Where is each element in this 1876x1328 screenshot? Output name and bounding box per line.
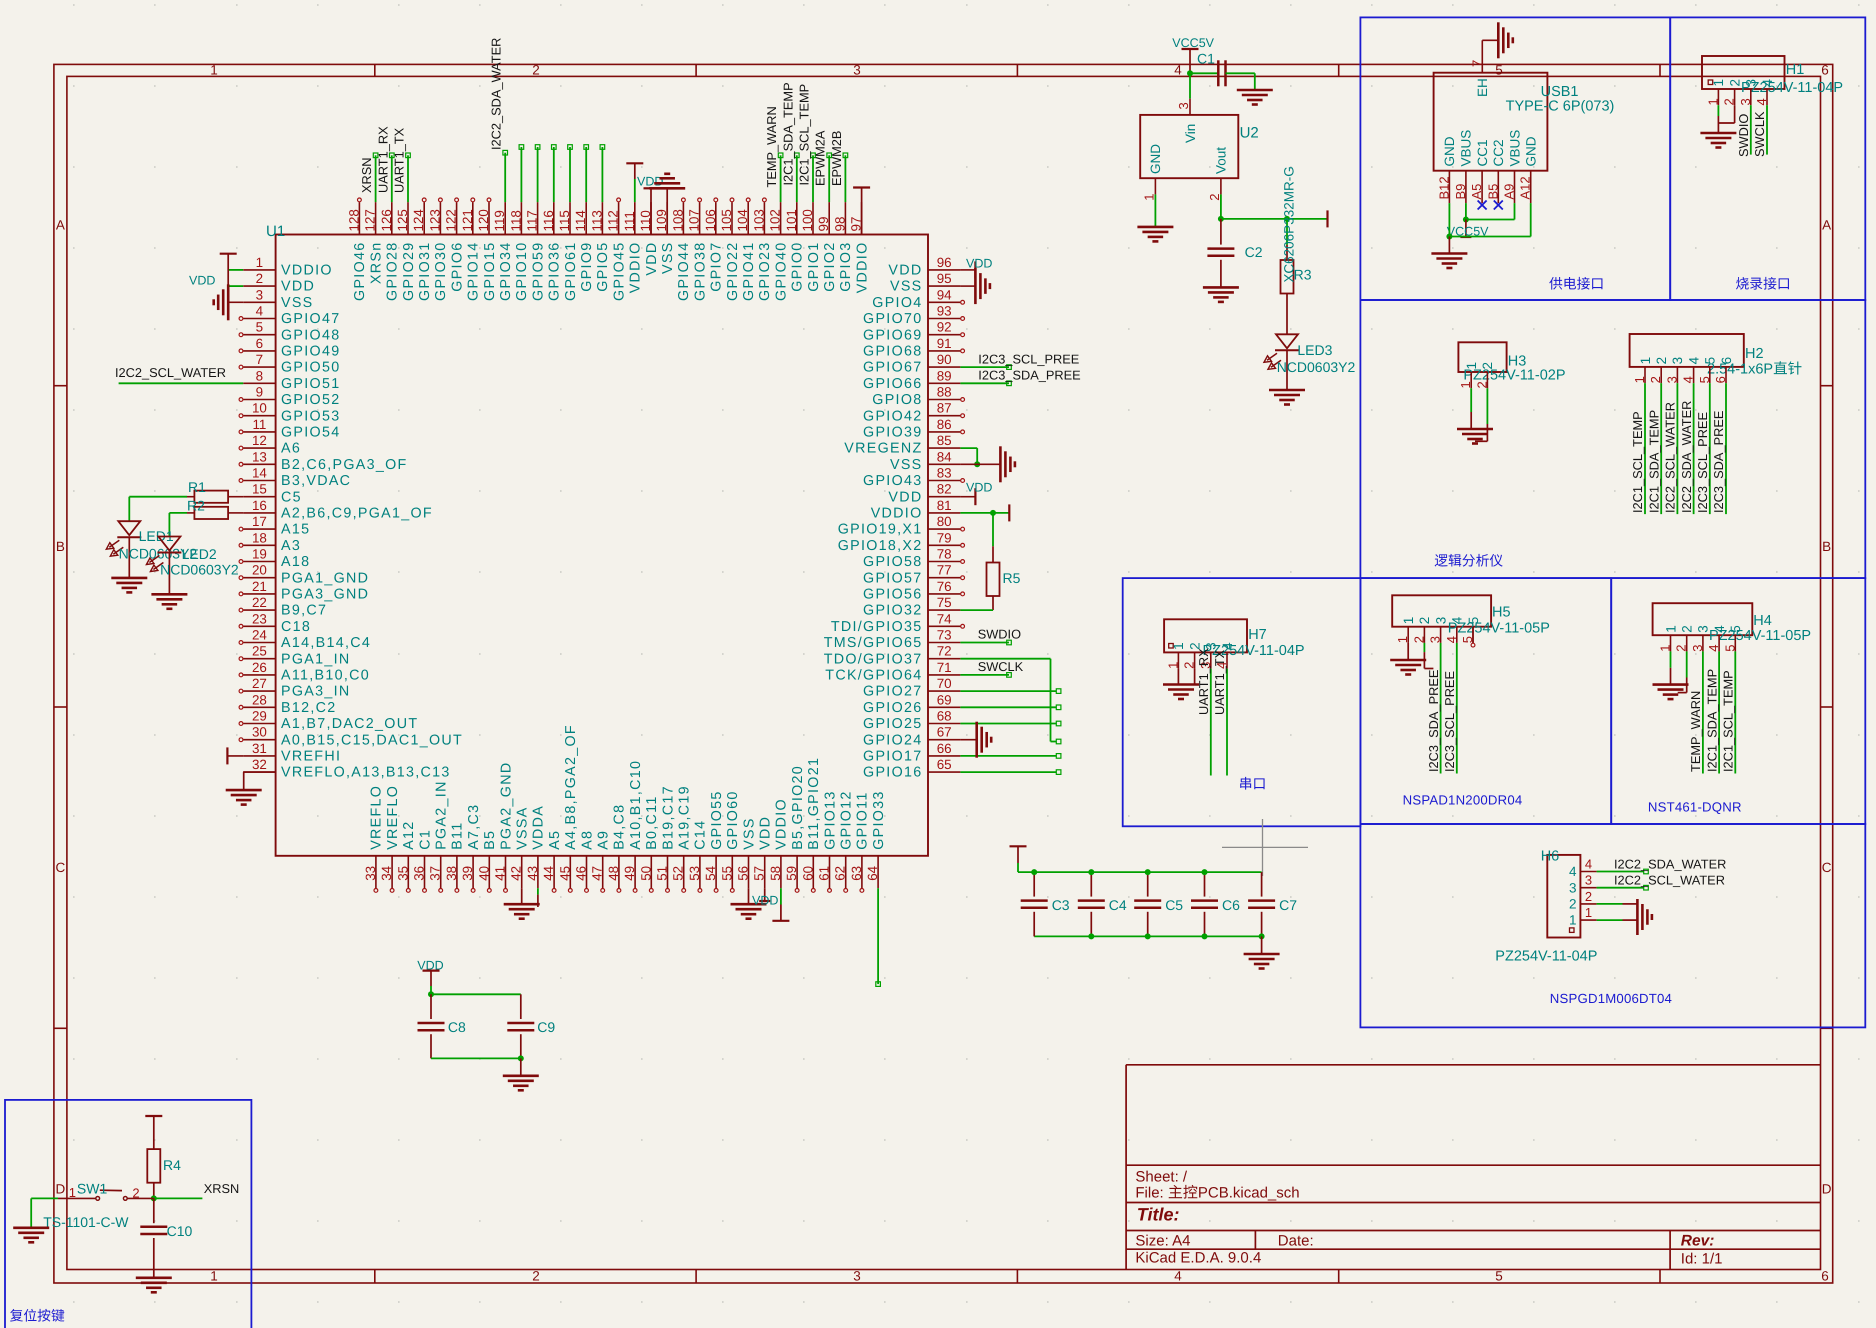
svg-text:I2C3_SDA_PREE: I2C3_SDA_PREE	[1711, 411, 1726, 513]
svg-text:85: 85	[937, 433, 952, 448]
svg-text:VDD: VDD	[189, 273, 215, 287]
svg-text:2: 2	[1480, 362, 1495, 370]
svg-text:46: 46	[574, 866, 589, 881]
svg-text:KiCad E.D.A. 9.0.4: KiCad E.D.A. 9.0.4	[1135, 1250, 1261, 1267]
svg-text:PGA2_IN: PGA2_IN	[434, 780, 450, 850]
svg-text:GPIO17: GPIO17	[863, 749, 922, 765]
svg-text:126: 126	[379, 209, 394, 231]
svg-text:Size: A4: Size: A4	[1135, 1233, 1190, 1250]
svg-text:SWDIO: SWDIO	[978, 627, 1021, 642]
svg-text:GPIO60: GPIO60	[725, 790, 741, 849]
svg-text:92: 92	[937, 320, 952, 335]
svg-text:3: 3	[1738, 98, 1753, 105]
svg-text:R1: R1	[188, 479, 206, 495]
svg-text:R4: R4	[163, 1157, 181, 1173]
svg-text:C10: C10	[167, 1223, 193, 1239]
svg-text:B5,GPIO20: B5,GPIO20	[790, 765, 806, 850]
svg-text:3: 3	[853, 62, 861, 77]
svg-text:A2,B6,C9,PGA1_OF: A2,B6,C9,PGA1_OF	[281, 506, 433, 522]
svg-text:2: 2	[1207, 194, 1222, 201]
svg-text:7: 7	[256, 352, 263, 367]
svg-text:XRSn: XRSn	[368, 242, 384, 285]
svg-text:114: 114	[573, 210, 588, 232]
svg-text:A9: A9	[596, 830, 612, 850]
svg-text:I2C2_SDA_WATER: I2C2_SDA_WATER	[1614, 856, 1726, 871]
svg-text:65: 65	[937, 757, 952, 772]
svg-text:TCK/GPIO64: TCK/GPIO64	[825, 668, 922, 684]
svg-text:VDD: VDD	[752, 894, 778, 908]
svg-text:GPIO43: GPIO43	[863, 473, 922, 489]
svg-text:TDO/GPIO37: TDO/GPIO37	[824, 651, 923, 667]
svg-text:A18: A18	[281, 554, 310, 570]
svg-text:38: 38	[444, 866, 459, 881]
svg-text:GPIO18,X2: GPIO18,X2	[838, 538, 923, 554]
svg-text:A7,C3: A7,C3	[466, 804, 482, 850]
svg-text:File: 主控PCB.kicad_sch: File: 主控PCB.kicad_sch	[1135, 1185, 1299, 1202]
svg-text:H2: H2	[1745, 346, 1764, 362]
svg-text:GPIO30: GPIO30	[433, 242, 449, 301]
svg-text:2: 2	[1411, 636, 1426, 643]
svg-text:PZ254V-11-04P: PZ254V-11-04P	[1495, 949, 1597, 965]
svg-text:5: 5	[1697, 376, 1712, 383]
svg-text:1: 1	[1632, 376, 1647, 383]
svg-text:PGA2_GND: PGA2_GND	[498, 762, 514, 850]
svg-text:NCD0603Y2: NCD0603Y2	[160, 562, 239, 578]
svg-text:VDDIO: VDDIO	[281, 263, 333, 279]
svg-text:23: 23	[252, 611, 267, 626]
svg-text:6: 6	[1821, 1268, 1829, 1283]
svg-text:21: 21	[252, 579, 267, 594]
svg-text:GPIO32: GPIO32	[863, 603, 922, 619]
svg-text:3: 3	[256, 287, 263, 302]
svg-text:GPIO25: GPIO25	[863, 716, 922, 732]
svg-text:3: 3	[1585, 873, 1592, 888]
svg-text:I2C1_SDA_TEMP: I2C1_SDA_TEMP	[1704, 669, 1719, 772]
svg-text:NST461-DQNR: NST461-DQNR	[1648, 800, 1742, 815]
svg-text:62: 62	[833, 866, 848, 881]
svg-text:90: 90	[937, 352, 952, 367]
svg-text:C5: C5	[1165, 897, 1183, 913]
svg-text:NSPAD1N200DR04: NSPAD1N200DR04	[1403, 793, 1523, 808]
svg-text:1: 1	[1464, 362, 1479, 370]
svg-text:48: 48	[606, 866, 621, 881]
svg-text:1: 1	[1663, 625, 1678, 633]
svg-text:100: 100	[800, 209, 815, 231]
svg-text:VREFLO: VREFLO	[369, 785, 385, 850]
svg-text:A5: A5	[547, 830, 563, 850]
svg-text:GPIO46: GPIO46	[352, 242, 368, 301]
svg-text:GPIO8: GPIO8	[872, 392, 922, 408]
svg-text:GPIO34: GPIO34	[498, 242, 514, 301]
svg-text:A14,B14,C4: A14,B14,C4	[281, 635, 371, 651]
svg-text:118: 118	[508, 210, 523, 231]
svg-text:Id: 1/1: Id: 1/1	[1681, 1251, 1723, 1268]
svg-text:59: 59	[784, 866, 799, 881]
svg-text:GPIO47: GPIO47	[281, 311, 340, 327]
svg-text:VSS: VSS	[890, 457, 923, 473]
svg-text:VDD: VDD	[281, 279, 315, 295]
svg-text:35: 35	[395, 866, 410, 881]
svg-text:GPIO45: GPIO45	[611, 242, 627, 301]
svg-text:TDI/GPIO35: TDI/GPIO35	[831, 619, 923, 635]
svg-text:GPIO54: GPIO54	[281, 425, 340, 441]
svg-text:52: 52	[671, 866, 686, 881]
svg-text:11: 11	[252, 417, 266, 432]
svg-text:57: 57	[752, 866, 767, 881]
svg-text:A15: A15	[281, 522, 310, 538]
svg-text:A: A	[56, 218, 65, 233]
svg-text:B11,GPIO21: B11,GPIO21	[806, 757, 822, 850]
svg-text:GPIO1: GPIO1	[806, 242, 822, 292]
svg-text:50: 50	[638, 866, 653, 881]
svg-text:1: 1	[1458, 381, 1473, 388]
svg-text:TMS/GPIO65: TMS/GPIO65	[824, 635, 923, 651]
svg-text:40: 40	[476, 866, 491, 881]
svg-text:PGA1_IN: PGA1_IN	[281, 651, 351, 667]
svg-text:39: 39	[460, 866, 475, 881]
svg-text:GPIO38: GPIO38	[692, 242, 708, 301]
svg-text:79: 79	[937, 530, 952, 545]
svg-text:121: 121	[460, 209, 475, 231]
svg-text:SWCLK: SWCLK	[978, 659, 1024, 674]
svg-text:7: 7	[1469, 60, 1484, 67]
svg-text:H6: H6	[1541, 849, 1560, 865]
svg-text:I2C1_SDA_TEMP: I2C1_SDA_TEMP	[1646, 410, 1661, 513]
svg-text:25: 25	[252, 644, 267, 659]
svg-text:GPIO56: GPIO56	[863, 587, 922, 603]
svg-text:14: 14	[252, 466, 267, 481]
svg-text:VREFLO: VREFLO	[385, 785, 401, 850]
svg-text:42: 42	[509, 866, 524, 881]
svg-text:C9: C9	[537, 1019, 555, 1035]
svg-text:104: 104	[735, 209, 750, 232]
svg-text:VREFLO,A13,B13,C13: VREFLO,A13,B13,C13	[281, 765, 451, 781]
svg-text:B11: B11	[450, 822, 466, 850]
svg-text:I2C3_SCL_PREE: I2C3_SCL_PREE	[1695, 412, 1710, 513]
svg-text:13: 13	[252, 449, 267, 464]
svg-text:9: 9	[256, 385, 263, 400]
svg-text:GPIO0: GPIO0	[790, 242, 806, 292]
svg-text:GPIO3: GPIO3	[838, 242, 854, 292]
svg-text:Title:: Title:	[1137, 1205, 1180, 1225]
svg-text:复位按键: 复位按键	[10, 1308, 65, 1323]
svg-text:VDD: VDD	[966, 256, 992, 270]
svg-text:15: 15	[252, 482, 267, 497]
svg-text:UART1_TX: UART1_TX	[1212, 649, 1227, 715]
svg-text:A11,B10,C0: A11,B10,C0	[281, 668, 370, 684]
svg-text:71: 71	[937, 660, 952, 675]
svg-text:R2: R2	[187, 498, 205, 514]
svg-text:95: 95	[937, 271, 952, 286]
svg-text:105: 105	[719, 209, 734, 231]
svg-text:EPWM2B: EPWM2B	[829, 131, 844, 186]
svg-text:93: 93	[937, 304, 952, 319]
svg-text:A: A	[1822, 218, 1831, 233]
svg-text:GPIO36: GPIO36	[547, 242, 563, 301]
svg-text:GPIO29: GPIO29	[401, 242, 417, 301]
svg-text:2: 2	[1648, 376, 1663, 383]
svg-text:31: 31	[252, 741, 267, 756]
svg-text:A12: A12	[401, 820, 417, 849]
svg-text:4: 4	[1569, 864, 1577, 879]
svg-text:49: 49	[622, 866, 637, 881]
svg-text:GPIO58: GPIO58	[863, 554, 922, 570]
svg-text:GPIO2: GPIO2	[822, 242, 838, 292]
svg-text:VSS: VSS	[741, 817, 757, 850]
svg-text:A12: A12	[1518, 176, 1533, 199]
svg-text:4: 4	[1220, 642, 1235, 650]
svg-text:3: 3	[1690, 644, 1705, 651]
svg-text:77: 77	[937, 563, 952, 578]
svg-text:GPIO6: GPIO6	[449, 242, 465, 292]
svg-text:4: 4	[1754, 98, 1769, 105]
svg-text:C14: C14	[693, 820, 709, 850]
svg-text:3: 3	[1696, 625, 1711, 633]
svg-text:VDD: VDD	[644, 242, 660, 276]
svg-text:A6: A6	[281, 441, 301, 457]
svg-text:GPIO40: GPIO40	[773, 242, 789, 301]
svg-text:GPIO68: GPIO68	[863, 344, 922, 360]
svg-text:GPIO70: GPIO70	[863, 311, 922, 327]
svg-text:A5: A5	[1469, 184, 1484, 200]
svg-text:34: 34	[379, 865, 394, 880]
svg-text:GPIO44: GPIO44	[676, 242, 692, 301]
svg-text:GPIO48: GPIO48	[281, 327, 340, 343]
svg-text:2: 2	[1722, 98, 1737, 105]
svg-text:119: 119	[492, 210, 507, 231]
svg-text:55: 55	[719, 866, 734, 881]
svg-text:GPIO26: GPIO26	[863, 700, 922, 716]
svg-text:32: 32	[252, 757, 267, 772]
svg-text:12: 12	[252, 433, 267, 448]
svg-text:R5: R5	[1003, 570, 1021, 586]
svg-text:B5: B5	[482, 830, 498, 850]
svg-text:70: 70	[937, 676, 952, 691]
svg-text:VDD: VDD	[966, 481, 992, 495]
svg-text:C7: C7	[1279, 897, 1297, 913]
svg-text:C1: C1	[417, 829, 433, 850]
svg-text:PGA3_IN: PGA3_IN	[281, 684, 351, 700]
svg-text:1: 1	[1569, 913, 1577, 928]
svg-text:27: 27	[252, 676, 267, 691]
svg-text:GPIO14: GPIO14	[466, 242, 482, 301]
svg-text:VREGENZ: VREGENZ	[844, 441, 922, 457]
svg-text:3: 3	[1670, 357, 1685, 365]
svg-text:GPIO28: GPIO28	[385, 242, 401, 301]
svg-text:73: 73	[937, 628, 952, 643]
svg-text:67: 67	[937, 725, 952, 740]
svg-text:56: 56	[736, 866, 751, 881]
svg-text:1: 1	[1165, 662, 1180, 669]
svg-text:5: 5	[1466, 617, 1481, 625]
svg-text:VDD: VDD	[888, 489, 922, 505]
svg-text:U1: U1	[266, 223, 285, 240]
svg-text:TS-1101-C-W: TS-1101-C-W	[43, 1214, 129, 1230]
svg-text:37: 37	[428, 866, 443, 881]
svg-text:94: 94	[937, 287, 952, 302]
svg-text:60: 60	[800, 866, 815, 881]
svg-text:C8: C8	[448, 1019, 466, 1035]
svg-text:H4: H4	[1753, 613, 1772, 629]
svg-text:VDDIO: VDDIO	[628, 242, 644, 294]
svg-text:2: 2	[132, 1186, 139, 1201]
svg-text:B3,VDAC: B3,VDAC	[281, 473, 351, 489]
svg-text:VCC5V: VCC5V	[1172, 36, 1214, 50]
svg-text:18: 18	[252, 530, 267, 545]
svg-text:GPIO41: GPIO41	[741, 242, 757, 301]
svg-text:串口: 串口	[1239, 777, 1267, 792]
svg-text:111: 111	[622, 211, 637, 231]
svg-text:I2C1_SCL_TEMP: I2C1_SCL_TEMP	[1721, 670, 1736, 772]
svg-text:GPIO27: GPIO27	[863, 684, 922, 700]
svg-text:5: 5	[1728, 625, 1743, 633]
svg-text:2: 2	[1727, 79, 1742, 87]
svg-text:Vin: Vin	[1183, 124, 1198, 143]
svg-text:GPIO50: GPIO50	[281, 360, 340, 376]
svg-text:33: 33	[363, 866, 378, 881]
svg-text:LED3: LED3	[1297, 342, 1332, 358]
svg-text:A10,B1,C10: A10,B1,C10	[628, 760, 644, 850]
svg-text:B: B	[56, 539, 65, 554]
svg-text:GPIO10: GPIO10	[514, 242, 530, 301]
svg-text:98: 98	[832, 217, 847, 232]
svg-text:B12: B12	[1436, 176, 1451, 199]
svg-text:I2C2_SDA_WATER: I2C2_SDA_WATER	[489, 38, 504, 150]
svg-text:C2: C2	[1245, 244, 1263, 260]
svg-text:102: 102	[768, 209, 783, 231]
svg-text:GPIO5: GPIO5	[595, 242, 611, 292]
svg-text:VDD: VDD	[888, 263, 922, 279]
svg-text:44: 44	[541, 865, 556, 880]
svg-text:GPIO42: GPIO42	[863, 408, 922, 424]
svg-text:2: 2	[532, 62, 540, 77]
svg-text:B9,C7: B9,C7	[281, 603, 327, 619]
svg-text:I2C2_SCL_WATER: I2C2_SCL_WATER	[115, 365, 226, 380]
svg-text:I2C1_SCL_TEMP: I2C1_SCL_TEMP	[797, 84, 812, 186]
svg-text:61: 61	[817, 866, 832, 881]
svg-text:GPIO7: GPIO7	[709, 242, 725, 292]
svg-text:C6: C6	[1222, 897, 1240, 913]
svg-text:5: 5	[1722, 644, 1737, 651]
svg-text:10: 10	[252, 401, 267, 416]
svg-text:4: 4	[256, 304, 264, 319]
svg-text:3: 3	[1176, 102, 1191, 109]
svg-text:GPIO31: GPIO31	[417, 242, 433, 301]
svg-text:63: 63	[849, 866, 864, 881]
svg-text:VBUS: VBUS	[1507, 130, 1522, 167]
svg-text:B19,C17: B19,C17	[660, 785, 676, 850]
svg-text:3: 3	[1569, 880, 1577, 895]
svg-text:2: 2	[532, 1268, 540, 1283]
svg-text:GND: GND	[1524, 136, 1539, 166]
svg-text:B5: B5	[1485, 184, 1500, 200]
svg-text:GPIO69: GPIO69	[863, 327, 922, 343]
svg-text:SW1: SW1	[77, 1181, 108, 1197]
svg-text:XRSN: XRSN	[359, 157, 374, 193]
svg-text:81: 81	[937, 498, 952, 513]
svg-text:GPIO23: GPIO23	[757, 242, 773, 301]
svg-text:GPIO52: GPIO52	[281, 392, 340, 408]
svg-text:GPIO55: GPIO55	[709, 790, 725, 849]
svg-text:供电接口: 供电接口	[1549, 277, 1604, 292]
svg-text:2: 2	[1474, 381, 1489, 388]
svg-text:108: 108	[670, 209, 685, 231]
svg-text:122: 122	[444, 209, 459, 231]
svg-text:2: 2	[1680, 625, 1695, 633]
svg-text:GPIO4: GPIO4	[872, 295, 922, 311]
svg-text:106: 106	[703, 209, 718, 231]
svg-text:47: 47	[590, 866, 605, 881]
svg-text:NSPGD1M006DT04: NSPGD1M006DT04	[1550, 991, 1672, 1006]
svg-text:128: 128	[346, 209, 361, 231]
svg-text:I2C3_SCL_PREE: I2C3_SCL_PREE	[978, 351, 1079, 366]
svg-text:20: 20	[252, 563, 267, 578]
svg-text:I2C1_SDA_TEMP: I2C1_SDA_TEMP	[780, 82, 795, 185]
svg-text:22: 22	[252, 595, 267, 610]
svg-text:B12,C2: B12,C2	[281, 700, 337, 716]
svg-text:TYPE-C 6P(073): TYPE-C 6P(073)	[1506, 99, 1615, 115]
svg-text:GPIO12: GPIO12	[839, 790, 855, 849]
svg-text:24: 24	[252, 628, 267, 643]
svg-text:CC1: CC1	[1475, 139, 1490, 166]
svg-text:2: 2	[1182, 662, 1197, 669]
svg-text:3: 3	[1433, 617, 1448, 625]
svg-text:Date:: Date:	[1278, 1233, 1314, 1250]
svg-text:NCD0603Y2: NCD0603Y2	[1277, 359, 1356, 375]
svg-text:H5: H5	[1492, 604, 1511, 620]
svg-text:101: 101	[784, 209, 799, 231]
svg-text:XRSN: XRSN	[204, 1181, 240, 1196]
svg-text:LED2: LED2	[182, 546, 217, 562]
svg-text:VSS: VSS	[660, 242, 676, 275]
svg-text:113: 113	[589, 210, 604, 231]
svg-text:GND: GND	[1442, 136, 1457, 166]
svg-text:TEMP_WARN: TEMP_WARN	[1688, 691, 1703, 772]
svg-text:A1,B7,DAC2_OUT: A1,B7,DAC2_OUT	[281, 716, 418, 732]
svg-text:SWDIO: SWDIO	[1736, 114, 1751, 157]
svg-text:82: 82	[937, 482, 952, 497]
svg-text:B0,C11: B0,C11	[644, 795, 660, 849]
svg-text:GPIO9: GPIO9	[579, 242, 595, 292]
svg-text:VSS: VSS	[281, 295, 314, 311]
svg-text:I2C2_SDA_WATER: I2C2_SDA_WATER	[1679, 401, 1694, 513]
svg-text:66: 66	[937, 741, 952, 756]
svg-text:8: 8	[256, 368, 263, 383]
svg-text:69: 69	[937, 692, 952, 707]
svg-text:GPIO53: GPIO53	[281, 408, 340, 424]
svg-text:29: 29	[252, 709, 267, 724]
svg-text:D: D	[1822, 1181, 1832, 1196]
svg-text:VDDIO: VDDIO	[774, 798, 790, 850]
svg-text:5: 5	[1495, 62, 1503, 77]
svg-text:C3: C3	[1052, 897, 1070, 913]
svg-text:6: 6	[1713, 376, 1728, 383]
svg-text:1: 1	[1705, 98, 1720, 105]
svg-text:5: 5	[1495, 1268, 1503, 1283]
svg-text:GND: GND	[1148, 144, 1163, 174]
svg-text:1: 1	[210, 62, 218, 77]
svg-text:GPIO66: GPIO66	[863, 376, 922, 392]
svg-text:VBUS: VBUS	[1459, 130, 1474, 167]
svg-text:80: 80	[937, 514, 952, 529]
svg-text:GPIO19,X1: GPIO19,X1	[838, 522, 923, 538]
svg-text:107: 107	[687, 209, 702, 231]
svg-text:88: 88	[937, 385, 952, 400]
svg-text:17: 17	[252, 514, 267, 529]
svg-text:A3: A3	[281, 538, 301, 554]
svg-text:36: 36	[412, 866, 427, 881]
svg-text:1: 1	[1585, 905, 1592, 920]
